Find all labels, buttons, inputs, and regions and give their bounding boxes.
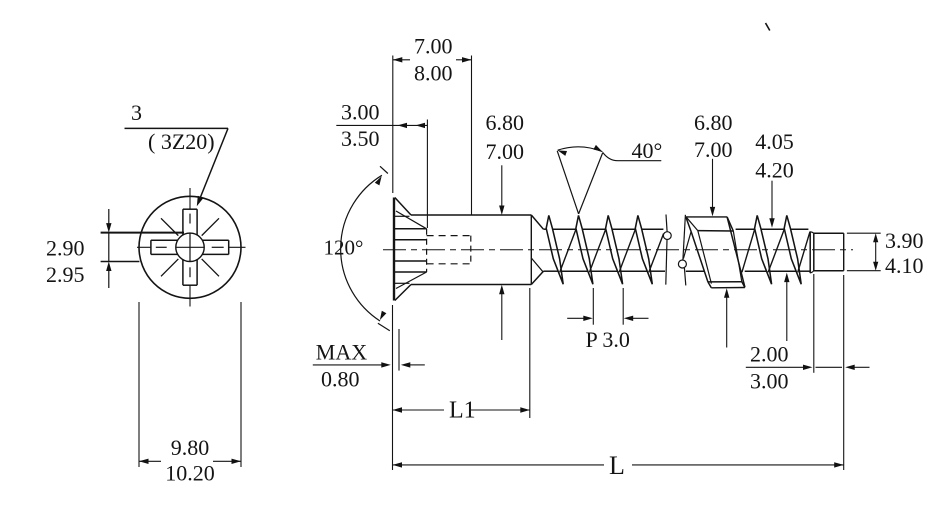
svg-text:8.00: 8.00 bbox=[414, 61, 453, 86]
svg-text:4.20: 4.20 bbox=[755, 158, 794, 183]
svg-text:L1: L1 bbox=[449, 398, 476, 424]
svg-text:3: 3 bbox=[131, 100, 142, 125]
svg-text:10.20: 10.20 bbox=[165, 461, 215, 486]
svg-text:9.80: 9.80 bbox=[171, 435, 210, 460]
svg-text:P 3.0: P 3.0 bbox=[586, 327, 630, 352]
svg-text:40°: 40° bbox=[632, 138, 663, 163]
svg-text:MAX: MAX bbox=[316, 339, 367, 364]
svg-text:7.00: 7.00 bbox=[414, 34, 453, 59]
svg-text:2.90: 2.90 bbox=[46, 235, 85, 260]
svg-text:7.00: 7.00 bbox=[486, 139, 525, 164]
svg-text:3.00: 3.00 bbox=[341, 99, 380, 124]
svg-text:3.50: 3.50 bbox=[341, 126, 380, 151]
svg-text:7.00: 7.00 bbox=[694, 137, 733, 162]
svg-text:6.80: 6.80 bbox=[694, 110, 733, 135]
svg-text:120°: 120° bbox=[324, 236, 364, 260]
svg-text:6.80: 6.80 bbox=[486, 110, 525, 135]
svg-text:3.00: 3.00 bbox=[750, 368, 789, 393]
svg-text:0.80: 0.80 bbox=[321, 366, 360, 391]
svg-text:( 3Z20): ( 3Z20) bbox=[148, 129, 215, 154]
svg-text:3.90: 3.90 bbox=[885, 228, 924, 253]
svg-text:2.95: 2.95 bbox=[46, 262, 85, 287]
svg-text:4.10: 4.10 bbox=[885, 253, 924, 278]
svg-text:2.00: 2.00 bbox=[750, 342, 789, 367]
svg-text:L: L bbox=[609, 451, 625, 480]
svg-text:4.05: 4.05 bbox=[755, 129, 794, 154]
